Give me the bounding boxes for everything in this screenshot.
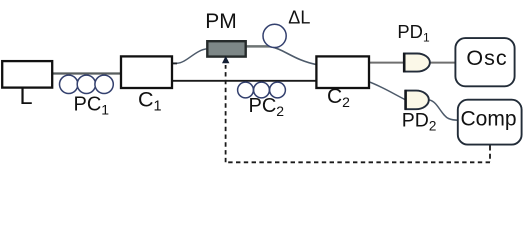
coupler C1 xyxy=(121,56,172,88)
polarization controller PC1 loops xyxy=(59,75,113,93)
laser box L xyxy=(2,61,52,88)
wire PD2 to Comp xyxy=(430,100,459,120)
computer box Comp xyxy=(458,100,522,145)
wire C1 to C2 (lower arm) xyxy=(171,80,317,82)
wire laser to C1 xyxy=(52,72,122,74)
wire PD1 to Osc xyxy=(429,62,456,64)
photodetector PD1 xyxy=(404,54,430,72)
wire C2 to PD1 xyxy=(368,62,405,64)
wire C1 to PM (upper arm curve) xyxy=(171,62,177,64)
svg-text:Osc: Osc xyxy=(466,46,507,70)
phase modulator PM xyxy=(207,41,245,56)
photodetector PD2 xyxy=(405,91,428,110)
coupler C2 xyxy=(316,56,369,88)
dashed feedback horizontal xyxy=(226,161,490,163)
delay loop circle xyxy=(263,24,286,47)
feedback arrow into PM xyxy=(222,56,229,63)
svg-text:PM: PM xyxy=(205,10,237,33)
polarization controller PC2 loops xyxy=(238,82,286,98)
wire loop to C2 xyxy=(270,47,318,65)
svg-text:Comp: Comp xyxy=(461,108,517,131)
dashed feedback vertical to arrow xyxy=(225,65,227,162)
wire C2 to PD2 xyxy=(368,82,406,100)
svg-text:ΔL: ΔL xyxy=(288,8,310,28)
svg-text:L: L xyxy=(20,83,33,109)
wire PM to delay loop xyxy=(246,45,271,48)
oscilloscope box Osc xyxy=(455,38,514,86)
dashed drop wire from Comp xyxy=(489,146,491,163)
